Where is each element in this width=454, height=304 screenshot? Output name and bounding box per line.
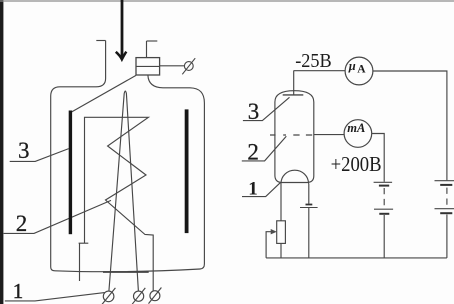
svg-text:μ: μ bbox=[348, 59, 356, 73]
svg-text:3: 3 bbox=[18, 138, 30, 163]
svg-text:1: 1 bbox=[13, 279, 24, 303]
svg-text:2: 2 bbox=[247, 139, 259, 164]
svg-text:3: 3 bbox=[248, 99, 259, 124]
svg-text:mA: mA bbox=[347, 121, 365, 135]
svg-text:2: 2 bbox=[16, 211, 27, 236]
svg-text:A: A bbox=[357, 64, 366, 76]
svg-text:-25В: -25В bbox=[295, 50, 332, 72]
svg-text:1: 1 bbox=[248, 178, 258, 199]
svg-text:+200В: +200В bbox=[331, 152, 382, 176]
